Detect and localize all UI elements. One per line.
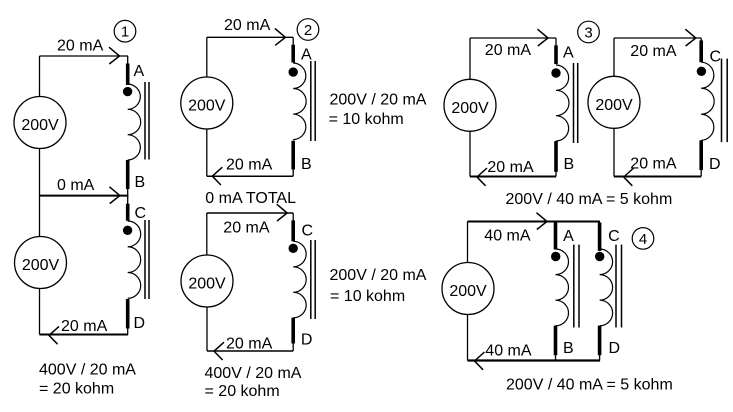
core lines transformer T1 upper bbox=[144, 82, 146, 160]
core lines transformer T4 right bbox=[615, 245, 617, 328]
svg-text:200V: 200V bbox=[188, 98, 226, 115]
phasing dot winding C-D c3 bbox=[697, 67, 706, 76]
wire left vertical bottom circuit 4 bbox=[467, 315, 469, 361]
svg-text:2: 2 bbox=[304, 22, 312, 39]
svg-text:200V: 200V bbox=[595, 97, 633, 114]
wire left vertical upper circuit 1 bbox=[39, 56, 41, 97]
terminal lead C (thick) bbox=[126, 204, 130, 221]
circled number 4 bbox=[632, 228, 654, 250]
circled number 3 bbox=[578, 21, 600, 43]
svg-text:= 10 kohm: = 10 kohm bbox=[330, 288, 405, 305]
winding C-D coil c3 bbox=[701, 62, 714, 140]
wire bottom circuit 3 left loop bbox=[470, 176, 556, 178]
svg-text:20 mA: 20 mA bbox=[223, 219, 270, 236]
core lines transformer T1 lower bbox=[144, 220, 146, 299]
winding A-B coil circuit 2 bbox=[293, 63, 306, 140]
core lines transformer T2 upper bbox=[310, 61, 312, 141]
primary winding A-B coil bbox=[128, 84, 141, 160]
svg-text:20 mA: 20 mA bbox=[487, 159, 534, 176]
svg-text:D: D bbox=[609, 340, 621, 357]
current arrow 20 mA left lower loop bbox=[214, 342, 224, 360]
voltage source V6 200V bbox=[588, 76, 640, 128]
svg-text:D: D bbox=[134, 315, 146, 332]
wire lead from D c4 bbox=[599, 354, 601, 360]
svg-text:B: B bbox=[301, 156, 312, 173]
svg-text:40 mA: 40 mA bbox=[485, 343, 532, 360]
svg-text:B: B bbox=[563, 340, 574, 357]
current arrow 20 mA right c3 right bbox=[685, 29, 696, 46]
svg-text:A: A bbox=[563, 228, 574, 245]
svg-text:400V / 20 mA: 400V / 20 mA bbox=[39, 362, 136, 379]
wire left vertical bottom c3 left bbox=[469, 132, 471, 177]
core lines transformer T4 left bbox=[573, 245, 575, 328]
voltage source V4 200V bbox=[181, 255, 233, 307]
wire top of circuit 2 upper loop bbox=[207, 36, 293, 38]
circled number 1 bbox=[114, 20, 136, 42]
svg-text:200V / 20 mA: 200V / 20 mA bbox=[330, 91, 427, 108]
svg-text:200V / 20 mA: 200V / 20 mA bbox=[330, 267, 427, 284]
wire lead into terminal A loop2 bbox=[292, 37, 294, 45]
voltage source V7 200V bbox=[442, 263, 494, 315]
svg-text:1: 1 bbox=[121, 24, 129, 41]
wire bottom of upper loop bbox=[207, 175, 293, 177]
current arrow 20 mA left c3 left bbox=[477, 168, 487, 186]
terminal lead A (thick) bbox=[126, 64, 130, 86]
svg-text:20 mA: 20 mA bbox=[57, 38, 104, 55]
wire lead from D lower loop bbox=[292, 343, 294, 352]
svg-text:A: A bbox=[301, 46, 312, 63]
wire left vertical c3 left bbox=[469, 38, 471, 79]
wire top of circuit 2 lower loop bbox=[207, 212, 293, 214]
svg-text:200V: 200V bbox=[21, 117, 59, 134]
winding A-B coil c4 bbox=[556, 249, 569, 326]
terminal lead D c4 (thick) bbox=[598, 326, 602, 356]
svg-text:20 mA: 20 mA bbox=[61, 318, 108, 335]
phasing dot winding C-D bbox=[123, 226, 132, 235]
svg-text:4: 4 bbox=[639, 231, 647, 248]
circled number 2 bbox=[297, 19, 319, 41]
svg-text:C: C bbox=[608, 228, 620, 245]
terminal lead B (thick) bbox=[126, 160, 130, 189]
terminal lead D (thick) bbox=[126, 299, 130, 329]
voltage source V5 200V bbox=[444, 79, 496, 131]
svg-text:200V / 40 mA = 5 kohm: 200V / 40 mA = 5 kohm bbox=[506, 191, 673, 208]
wire lead into terminal C loop2 bbox=[292, 213, 294, 221]
wire lead from B upper loop bbox=[292, 169, 294, 177]
svg-text:0 mA: 0 mA bbox=[57, 177, 95, 194]
wire bottom of circuit 1 bbox=[40, 334, 129, 336]
svg-text:200V / 40 mA = 5 kohm: 200V / 40 mA = 5 kohm bbox=[506, 376, 673, 393]
winding C-D coil c4 bbox=[600, 249, 613, 326]
current arrow 20 mA right c3 left bbox=[538, 29, 549, 46]
wire left vertical lower circuit 1 bbox=[39, 289, 41, 335]
svg-text:C: C bbox=[135, 205, 147, 222]
svg-text:C: C bbox=[710, 48, 722, 65]
svg-text:A: A bbox=[134, 63, 145, 80]
wire left vertical c3 right bbox=[613, 38, 615, 76]
wire lead from B to middle node bbox=[127, 188, 129, 197]
svg-text:C: C bbox=[302, 222, 314, 239]
wire bottom of circuit 4 bbox=[468, 359, 601, 361]
svg-text:20 mA: 20 mA bbox=[630, 43, 677, 60]
svg-text:20 mA: 20 mA bbox=[485, 42, 532, 59]
phasing dot winding A-B bbox=[123, 87, 132, 96]
wire lead into terminal C bbox=[127, 196, 129, 205]
core lines transformer T2 lower bbox=[310, 240, 312, 319]
current arrow 20 mA right bbox=[109, 47, 120, 64]
svg-text:400V / 20 mA: 400V / 20 mA bbox=[205, 365, 302, 382]
svg-text:40 mA: 40 mA bbox=[484, 228, 531, 245]
wire left vertical circuit 4 bbox=[467, 222, 469, 264]
wire left vertical upper loop bbox=[206, 37, 208, 77]
wire middle 0 mA circuit 1 bbox=[40, 195, 129, 197]
svg-text:20 mA: 20 mA bbox=[224, 17, 271, 34]
terminal lead D lower loop (thick) bbox=[291, 318, 295, 344]
svg-text:= 20 kohm: = 20 kohm bbox=[39, 381, 114, 398]
svg-text:0 mA TOTAL: 0 mA TOTAL bbox=[205, 190, 296, 207]
svg-text:20 mA: 20 mA bbox=[226, 335, 273, 352]
terminal lead A upper loop (thick) bbox=[291, 45, 295, 63]
secondary winding C-D coil bbox=[128, 221, 141, 298]
current arrow 20 mA right upper loop bbox=[275, 29, 286, 46]
current arrow 40 mA right bbox=[537, 213, 548, 230]
phasing dot winding A-B circuit 2 bbox=[289, 67, 298, 76]
phasing dot winding A-B c4 bbox=[551, 252, 560, 261]
terminal lead C c3 (thick) bbox=[699, 40, 703, 62]
wire lead into terminal A c3 bbox=[555, 38, 557, 46]
wire lead from D to bottom wire bbox=[127, 328, 129, 335]
wire lead from D c3 bbox=[700, 169, 702, 177]
wire top circuit 3 left loop bbox=[470, 37, 556, 39]
svg-text:B: B bbox=[564, 156, 575, 173]
wire lead from B c3 bbox=[555, 171, 557, 177]
terminal lead B c3 (thick) bbox=[554, 141, 558, 172]
svg-text:= 10 kohm: = 10 kohm bbox=[329, 111, 404, 128]
svg-text:20 mA: 20 mA bbox=[630, 155, 677, 172]
voltage source V3 200V bbox=[181, 77, 233, 129]
current arrow 20 mA left bbox=[49, 326, 59, 344]
wire left vertical middle circuit 1 bbox=[39, 148, 41, 237]
svg-text:200V: 200V bbox=[188, 276, 226, 293]
wire left vertical bottom lower loop bbox=[206, 308, 208, 352]
wire lead from B c4 bbox=[555, 354, 557, 360]
svg-text:20 mA: 20 mA bbox=[226, 157, 273, 174]
current arrow 0 mA right bbox=[109, 187, 120, 204]
current arrow 20 mA left c3 right bbox=[624, 168, 634, 186]
core lines transformer T3 left bbox=[573, 63, 575, 143]
core lines transformer T3 right bbox=[721, 59, 723, 143]
terminal lead C c4 (thick) bbox=[598, 223, 602, 251]
phasing dot winding C-D c4 bbox=[595, 252, 604, 261]
current arrow 20 mA right lower loop bbox=[277, 204, 288, 221]
phasing dot winding C-D circuit 2 bbox=[289, 244, 298, 253]
wire left vertical lower part upper loop bbox=[206, 129, 208, 177]
terminal lead D c3 (thick) bbox=[699, 140, 703, 170]
svg-text:D: D bbox=[709, 156, 721, 173]
svg-text:D: D bbox=[301, 331, 313, 348]
winding C-D coil circuit 2 bbox=[293, 241, 306, 317]
voltage source V1 200V bbox=[14, 97, 66, 149]
svg-text:A: A bbox=[563, 45, 574, 62]
svg-text:200V: 200V bbox=[451, 100, 489, 117]
terminal lead C lower loop (thick) bbox=[291, 220, 295, 241]
voltage source V2 200V bbox=[15, 237, 67, 289]
terminal lead A c4 (thick) bbox=[554, 223, 558, 250]
terminal lead A c3 (thick) bbox=[554, 45, 558, 64]
svg-text:= 20 kohm: = 20 kohm bbox=[205, 383, 280, 400]
wire bottom circuit 3 right loop bbox=[614, 176, 701, 178]
wire bottom of lower loop bbox=[207, 350, 293, 352]
wire top of circuit 1 bbox=[40, 55, 129, 57]
wire top circuit 3 right loop bbox=[614, 37, 701, 39]
svg-text:3: 3 bbox=[584, 24, 592, 41]
current arrow 20 mA left upper loop bbox=[212, 167, 222, 185]
svg-text:200V: 200V bbox=[449, 283, 487, 300]
wire left vertical bottom c3 right bbox=[613, 129, 615, 177]
svg-text:200V: 200V bbox=[22, 257, 60, 274]
winding A-B coil c3 bbox=[556, 65, 569, 141]
wire lead into terminal A bbox=[127, 56, 129, 65]
terminal lead B c4 (thick) bbox=[554, 326, 558, 356]
svg-text:B: B bbox=[135, 174, 146, 191]
wire top of circuit 4 bbox=[468, 220, 601, 222]
wire lead into terminal C c3 bbox=[700, 38, 702, 41]
current arrow 40 mA left bbox=[475, 352, 485, 370]
phasing dot winding A-B c3 bbox=[551, 68, 560, 77]
terminal lead B upper loop (thick) bbox=[291, 141, 295, 170]
wire left vertical lower loop bbox=[206, 213, 208, 255]
